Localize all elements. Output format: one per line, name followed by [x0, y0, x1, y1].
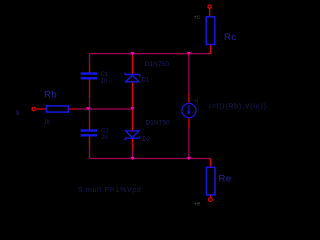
wire top horizontal net: [90, 53, 211, 55]
resistor Rc: [206, 17, 215, 45]
capacitor C1: [81, 72, 97, 79]
wire left rail between C2 and bottom: [89, 146, 91, 159]
pin D1 anode bottom: [132, 82, 134, 108]
pin C2 bottom: [89, 136, 91, 148]
pin D2 cathode bottom: [132, 139, 134, 151]
junction right rail x middle wire: [130, 107, 134, 110]
svg-text:D2: D2: [143, 137, 151, 143]
input terminal circle: [32, 107, 35, 110]
pin C1 top: [89, 64, 91, 73]
wire current-source column lower: [188, 126, 190, 159]
terminal C circle top: [208, 5, 211, 8]
svg-text:D1N750: D1N750: [146, 120, 171, 127]
wire left rail upper segment: [89, 53, 91, 65]
svg-text:C1: C1: [101, 72, 109, 78]
svg-text:+c: +c: [194, 15, 201, 21]
wire middle horizontal net: [77, 108, 132, 110]
svg-text:+i: +i: [194, 99, 199, 105]
pin D2 anode top: [132, 110, 134, 131]
current source G1 circle: [182, 103, 196, 117]
wire current-source column upper: [188, 54, 190, 95]
svg-text:2n: 2n: [101, 135, 108, 141]
svg-text:Ii: Ii: [16, 110, 20, 117]
pin Rb right lead: [68, 108, 78, 110]
svg-text:S:mult PP1%Vpd: S:mult PP1%Vpd: [78, 187, 142, 194]
junction source column x top wire: [187, 52, 191, 55]
svg-text:C2: C2: [101, 129, 109, 135]
pin Rc bottom to top wire: [210, 45, 212, 55]
junction right rail x bottom wire: [130, 157, 134, 160]
svg-text:1k: 1k: [44, 120, 51, 126]
pin Re top from bottom wire: [210, 159, 212, 168]
junction left rail x middle wire: [86, 107, 90, 110]
current source arrow: [187, 105, 191, 115]
resistor Re: [206, 167, 215, 195]
svg-text:D1: D1: [142, 78, 150, 84]
svg-text:1n: 1n: [101, 78, 108, 84]
pin Re bottom to terminal: [210, 195, 212, 198]
pin input terminal to Rb: [36, 108, 47, 110]
wire right rail lower segment above bottom wire: [132, 149, 134, 159]
zener diode D2: [125, 131, 140, 140]
junction right rail x top wire: [130, 52, 134, 55]
pin D1 cathode top: [132, 54, 134, 74]
svg-text:D1N750: D1N750: [145, 61, 170, 68]
junction source column x bottom wire: [187, 157, 191, 160]
pin current source bottom: [188, 118, 190, 128]
zener diode D1: [125, 73, 140, 82]
wire left rail between C1 and middle: [89, 96, 91, 120]
svg-text:Rc: Rc: [224, 32, 237, 43]
terminal E circle bottom: [209, 198, 213, 202]
capacitor C2: [81, 129, 97, 136]
svg-text:+e: +e: [194, 202, 202, 208]
svg-text:I=f(I(Rb),V(in)): I=f(I(Rb),V(in)): [209, 104, 267, 111]
wire bottom horizontal net: [90, 158, 211, 160]
svg-text:Re: Re: [219, 174, 232, 185]
pin C2 top: [89, 120, 91, 131]
pin C1 bottom: [89, 79, 91, 97]
pin current source top: [188, 94, 190, 104]
svg-text:Rb: Rb: [44, 90, 57, 101]
resistor Rb: [47, 106, 69, 112]
pin Rc top from terminal: [209, 8, 211, 17]
